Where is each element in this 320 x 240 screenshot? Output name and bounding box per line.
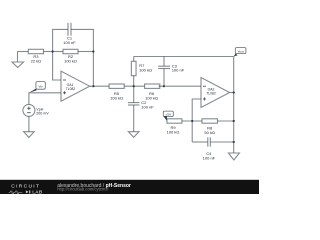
- ground G3 under C2: [128, 132, 139, 138]
- node E: [191, 120, 193, 122]
- svg-text:LAB: LAB: [32, 189, 43, 194]
- ground G4 bottom right: [228, 142, 239, 160]
- svg-text:100 nF: 100 nF: [172, 68, 185, 73]
- node C4 right: [233, 141, 235, 143]
- top feedback wire: [134, 56, 234, 58]
- wire OA1 noninverting input: [29, 93, 61, 105]
- footer credit text: [57, 183, 131, 192]
- right vertical wire: [233, 57, 235, 143]
- flag Vout: [235, 48, 246, 54]
- svg-text:200 mV: 200 mV: [36, 111, 49, 115]
- node B: [92, 50, 94, 52]
- svg-text:Vout: Vout: [238, 50, 244, 54]
- op-amp OA2: [201, 78, 230, 108]
- svg-text:100 nF: 100 nF: [63, 40, 76, 45]
- svg-text:100 nF: 100 nF: [141, 104, 154, 109]
- wire VpH to ground: [28, 116, 30, 131]
- svg-text:TL082: TL082: [206, 92, 216, 96]
- wire R3 to node A: [44, 51, 53, 53]
- node OA1 output: [92, 85, 94, 87]
- wire R9 to node E: [182, 120, 202, 122]
- flag tick +5V: [164, 116, 168, 121]
- svg-text:+5V: +5V: [166, 113, 171, 117]
- wire node A down to inverting input: [53, 52, 61, 81]
- flag tick Vout: [234, 54, 238, 57]
- svg-text:100 kΩ: 100 kΩ: [110, 95, 123, 100]
- flag Vin: [36, 82, 45, 90]
- voltage source VpH: [23, 104, 35, 116]
- svg-text:100 kΩ: 100 kΩ: [139, 67, 152, 72]
- capacitor C3: [158, 57, 170, 87]
- capacitor C4: [192, 137, 234, 146]
- svg-text:100 kΩ: 100 kΩ: [145, 95, 158, 100]
- logo CIRCUIT LAB: [9, 184, 43, 196]
- node D: [163, 85, 165, 87]
- svg-text:50 kΩ: 50 kΩ: [204, 130, 215, 135]
- svg-text:Vin: Vin: [38, 84, 43, 88]
- wire R8 to right vertical: [218, 120, 234, 122]
- ground G2 under VpH: [24, 132, 35, 138]
- wire R6 to node D to OA2: [159, 85, 201, 87]
- svg-text:100 nF: 100 nF: [203, 156, 216, 161]
- svg-text:http://circuitlab.com/cytzmzl: http://circuitlab.com/cytzmzl: [57, 187, 108, 192]
- wire OA1 output: [90, 85, 110, 87]
- svg-text:22 kΩ: 22 kΩ: [31, 58, 42, 63]
- OA1 input signs: [63, 80, 66, 94]
- resistor R6: [145, 84, 160, 88]
- resistor R7 vertical: [131, 57, 136, 87]
- wire R5 to node C: [124, 85, 144, 87]
- flag +5V: [163, 111, 173, 116]
- resistor R5: [109, 84, 124, 88]
- OA2 input signs: [203, 86, 206, 100]
- capacitor C1 feedback loop: [53, 23, 94, 52]
- svg-text:CIRCUIT: CIRCUIT: [11, 184, 40, 190]
- svg-text:100 kΩ: 100 kΩ: [64, 58, 77, 63]
- flag tick Vin: [29, 89, 37, 93]
- wire OA2 noninverting input: [192, 99, 201, 142]
- svg-text:100 kΩ: 100 kΩ: [167, 129, 180, 134]
- ground G1 top-left: [12, 52, 24, 68]
- resistor R9: [167, 119, 182, 123]
- resistor R8: [202, 119, 218, 123]
- wire node B down to output row: [92, 52, 94, 87]
- node C: [133, 85, 135, 87]
- VpH source symbols: [27, 107, 31, 113]
- resistor R2: [53, 49, 94, 53]
- resistor R3: [28, 49, 43, 53]
- wire OA2 output: [230, 92, 234, 94]
- svg-text:TL082: TL082: [66, 87, 76, 91]
- op-amp OA1: [61, 71, 90, 101]
- capacitor C2 to ground: [128, 86, 139, 132]
- footer bar: [0, 180, 259, 196]
- node A: [52, 50, 54, 52]
- node output right: [233, 91, 235, 93]
- wire ground to R3: [18, 51, 29, 53]
- node R8 right: [233, 120, 235, 122]
